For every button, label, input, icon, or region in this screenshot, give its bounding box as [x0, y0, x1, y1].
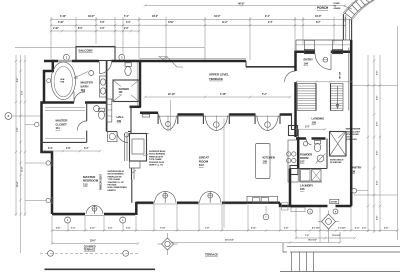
- svg-text:105: 105: [312, 120, 317, 124]
- great room ext line: [223, 118, 225, 228]
- porch column 2: [333, 40, 343, 53]
- steps edge bracket: [283, 243, 287, 252]
- svg-text:108: 108: [351, 169, 356, 173]
- svg-text:5'-2": 5'-2": [262, 93, 267, 96]
- closet shelves: [45, 107, 85, 109]
- fireplace lower step: [130, 161, 141, 168]
- svg-text:9'-6": 9'-6": [377, 96, 379, 100]
- master bedroom french door: [86, 205, 95, 214]
- detail diamond left: [162, 238, 174, 250]
- svg-text:16'-4": 16'-4": [16, 182, 19, 187]
- tub leader arrow: [74, 72, 88, 79]
- hall east wall: [139, 60, 142, 107]
- svg-text:2'-8": 2'-8": [284, 228, 288, 230]
- step line 3: [280, 271, 400, 273]
- right dimension lines: [367, 55, 369, 232]
- great room south door 1: [155, 191, 166, 203]
- fireplace body: [130, 134, 147, 162]
- terrace dimension line: [145, 96, 290, 98]
- balcony: [76, 47, 115, 61]
- svg-text:6'-10": 6'-10": [60, 15, 66, 18]
- bottom dimension second: [296, 237, 355, 239]
- french door tulip 1: [205, 116, 216, 131]
- stair right flight: [331, 84, 344, 111]
- bath south wall: [42, 101, 75, 104]
- svg-text:A: A: [8, 114, 10, 118]
- entry north wall: [296, 50, 315, 53]
- svg-text:3'-11": 3'-11": [90, 228, 95, 230]
- svg-text:8'-2": 8'-2": [316, 22, 321, 24]
- svg-text:DOOR: DOOR: [331, 202, 338, 204]
- great room south door 2: [200, 191, 211, 203]
- tub faucet: [47, 79, 51, 83]
- svg-text:3'-0": 3'-0": [126, 22, 131, 24]
- svg-text:46'-0": 46'-0": [238, 2, 245, 6]
- line of deck above: [15, 47, 205, 49]
- svg-text:7'-8": 7'-8": [205, 228, 209, 230]
- svg-text:16'-0": 16'-0": [315, 14, 322, 18]
- svg-text:21'-10": 21'-10": [168, 93, 175, 96]
- right leader line: [352, 85, 398, 87]
- french door tulip 2: [257, 116, 268, 131]
- refrigerator: [289, 126, 298, 136]
- svg-text:7'-10": 7'-10": [160, 228, 165, 230]
- porch side rails: [342, 14, 344, 40]
- great room north door tulip 1: [160, 116, 169, 131]
- door swing diamond: [322, 214, 336, 229]
- pantry shelves X box: [330, 132, 347, 157]
- top dimension line row 3: [51, 24, 345, 26]
- svg-text:6'-10": 6'-10": [58, 22, 64, 24]
- oven: [290, 166, 298, 175]
- svg-text:TERRACE: TERRACE: [205, 253, 218, 257]
- window bubble 1: [46, 161, 50, 165]
- entry door bubble: [323, 57, 328, 62]
- svg-text:5'-11": 5'-11": [251, 228, 256, 230]
- wc door arc: [77, 121, 87, 131]
- svg-text:104: 104: [304, 61, 309, 65]
- svg-text:2'-0": 2'-0": [362, 228, 366, 230]
- svg-text:2'-4": 2'-4": [126, 227, 130, 230]
- cooktop: [287, 152, 291, 156]
- whirlpool tub: [51, 62, 75, 100]
- hall balcony door leaf: [99, 62, 101, 74]
- svg-text:9'-6": 9'-6": [377, 151, 379, 155]
- svg-text:UP 16R: UP 16R: [340, 71, 342, 79]
- stair center walls: [315, 84, 317, 111]
- right mid bubble: [352, 188, 357, 193]
- bedroom door arc: [117, 132, 128, 143]
- powder east wall: [326, 139, 328, 169]
- grid bubble at balcony left: [63, 54, 69, 60]
- sink basin 1: [253, 198, 260, 203]
- svg-text:10'-6 1/2": 10'-6 1/2": [332, 235, 341, 237]
- svg-text:9'-6": 9'-6": [377, 216, 379, 220]
- svg-text:SUPERIOR BR-42: SUPERIOR BR-42: [149, 150, 166, 153]
- bath door arc: [74, 92, 85, 103]
- step line 2: [290, 251, 400, 253]
- bubbles below right wall: [308, 209, 313, 214]
- svg-text:18'-0 1/2": 18'-0 1/2": [308, 240, 317, 242]
- svg-text:VERIFY CL. HT.: VERIFY CL. HT.: [149, 165, 164, 167]
- laundry counter: [299, 169, 301, 183]
- landing dim line: [296, 128, 325, 130]
- svg-text:106: 106: [300, 187, 305, 191]
- wall below fireplace: [131, 180, 133, 203]
- step line 1: [287, 246, 400, 248]
- svg-text:FIREPLACE W/: FIREPLACE W/: [149, 155, 163, 158]
- hall north wall: [112, 60, 142, 63]
- left grid bubble A: [5, 113, 12, 120]
- terrace north wall: [140, 60, 246, 63]
- top dimension line row 2: [51, 19, 351, 21]
- svg-text:3'-4": 3'-4": [108, 227, 112, 230]
- dishwasher: [282, 203, 289, 210]
- porch curved steps far arc: [344, 0, 358, 14]
- right wall: [350, 40, 353, 206]
- powder toilet: [314, 143, 320, 151]
- svg-text:PROVIDE: PROVIDE: [108, 185, 117, 187]
- closet south wall: [42, 141, 87, 143]
- svg-text:WOOD BURNING: WOOD BURNING: [149, 154, 165, 156]
- fireplace wall upper: [130, 107, 132, 133]
- svg-text:6'-0": 6'-0": [355, 228, 359, 230]
- powder sink: [317, 155, 324, 162]
- svg-text:TERRACE: TERRACE: [209, 77, 223, 81]
- svg-text:9'-6": 9'-6": [377, 122, 379, 126]
- jamb posts: [157, 114, 159, 125]
- svg-text:TUB: TUB: [60, 82, 65, 84]
- svg-text:11'-8": 11'-8": [22, 167, 24, 172]
- svg-text:2'-8": 2'-8": [66, 148, 71, 150]
- svg-text:W/ SHELVES: W/ SHELVES: [330, 162, 342, 164]
- svg-text:3'-4": 3'-4": [48, 147, 53, 150]
- svg-text:107: 107: [300, 159, 305, 163]
- svg-text:7'-0": 7'-0": [17, 128, 19, 132]
- left small bubble: [35, 122, 39, 126]
- linen shelves: [107, 99, 112, 122]
- niche below wall: [142, 114, 150, 117]
- water closet walls: [86, 103, 88, 122]
- entry door: [315, 54, 331, 70]
- door bubble: [124, 133, 128, 137]
- deck leader flag: [159, 57, 167, 60]
- hall south-east walls: [130, 106, 141, 109]
- svg-text:NON-COMBUSTIBLE: NON-COMBUSTIBLE: [108, 187, 128, 189]
- toilet by hall north: [125, 67, 131, 76]
- terrace column circle 1: [48, 250, 54, 256]
- svg-text:25'-0": 25'-0": [90, 241, 96, 243]
- svg-text:8'-0": 8'-0": [78, 28, 83, 30]
- step risers: [291, 252, 293, 272]
- svg-text:3'-0 1/2": 3'-0 1/2": [338, 228, 346, 230]
- porch step treads: [356, 2, 361, 8]
- svg-text:34'-0": 34'-0": [88, 14, 95, 18]
- svg-text:PORCH: PORCH: [317, 6, 329, 10]
- landing door bubble: [303, 142, 307, 146]
- window bubble 2: [46, 198, 50, 202]
- top dimension line row 1: [145, 5, 345, 7]
- svg-text:5'-10": 5'-10": [220, 93, 226, 96]
- svg-text:SUPERIOR BR-42: SUPERIOR BR-42: [108, 170, 125, 173]
- svg-text:111: 111: [56, 126, 61, 130]
- svg-text:18'-0": 18'-0": [152, 15, 158, 18]
- bottom dimension main: [52, 230, 398, 232]
- terrace north jog: [245, 61, 247, 67]
- stair arrow: [337, 86, 339, 108]
- svg-text:3'-0": 3'-0": [71, 228, 75, 230]
- bath vanity: [100, 76, 107, 97]
- stair left flight: [297, 84, 316, 111]
- top dimension line row 4: [51, 30, 139, 32]
- svg-text:STACKED FLUE: STACKED FLUE: [149, 161, 165, 164]
- grid bubble at balcony right: [119, 54, 125, 60]
- svg-text:4'-0": 4'-0": [100, 27, 105, 30]
- hall south wall: [107, 131, 117, 133]
- svg-text:5'-2": 5'-2": [305, 126, 310, 128]
- svg-text:30'-6 1/2": 30'-6 1/2": [225, 240, 234, 242]
- south wall sill lines: [137, 203, 247, 205]
- laundry north wall: [290, 168, 327, 170]
- great room south wall: [136, 202, 153, 205]
- steps outside mud door: [291, 208, 305, 212]
- svg-text:34'-0": 34'-0": [214, 14, 221, 18]
- powder west wall: [297, 137, 300, 169]
- stair dimension line: [296, 81, 351, 83]
- jog wall to great room: [135, 202, 138, 215]
- south wall jog down: [280, 203, 292, 206]
- svg-text:TERRACE: TERRACE: [84, 249, 96, 252]
- porch column 1: [305, 40, 315, 53]
- svg-text:13'-8": 13'-8": [168, 22, 174, 24]
- svg-text:TYPE CHASE: TYPE CHASE: [149, 158, 162, 161]
- svg-text:5'-2": 5'-2": [22, 91, 24, 95]
- svg-text:7'-6": 7'-6": [305, 235, 309, 237]
- porch slab edge: [296, 39, 351, 41]
- kitchen island: [256, 144, 271, 179]
- svg-text:2'-8": 2'-8": [56, 228, 60, 230]
- svg-text:(2) SHELVES: (2) SHELVES: [346, 139, 358, 141]
- top extension lines: [50, 17, 52, 59]
- left dimension lines: [15, 55, 17, 216]
- svg-text:5'-8": 5'-8": [384, 228, 388, 230]
- svg-text:HEARTH: HEARTH: [108, 189, 117, 192]
- svg-text:112: 112: [83, 182, 88, 186]
- svg-text:BALCONY: BALCONY: [79, 49, 93, 53]
- grid bubble below sink: [263, 214, 269, 220]
- landing south wall: [296, 137, 306, 140]
- landing door arc: [306, 139, 312, 146]
- laundry west wall: [289, 169, 292, 207]
- svg-text:5'-8": 5'-8": [100, 22, 105, 24]
- west wall window 2: [50, 197, 52, 204]
- master bedroom south wall: [52, 213, 85, 216]
- svg-text:WOOD BURNING: WOOD BURNING: [108, 174, 124, 176]
- stair treads: [297, 85, 316, 87]
- west wall window 1: [50, 160, 52, 167]
- bath north window: [58, 59, 72, 61]
- bedroom window bubbles: [65, 217, 71, 223]
- svg-text:2'-10": 2'-10": [53, 28, 59, 30]
- kitchen east counter: [288, 140, 298, 182]
- svg-text:102: 102: [199, 163, 204, 167]
- shower: [113, 80, 139, 102]
- hall vanity: [108, 132, 118, 142]
- wc sink: [94, 106, 100, 112]
- svg-text:9'-4": 9'-4": [268, 21, 273, 24]
- svg-text:WATER HEATER: WATER HEATER: [346, 128, 361, 131]
- entry west door arc: [285, 71, 296, 82]
- great room north wall segments: [178, 113, 204, 116]
- svg-text:WINDOW SEAT: WINDOW SEAT: [100, 174, 103, 190]
- svg-text:FIREPLACE W/: FIREPLACE W/: [108, 175, 122, 178]
- kitchen sink counter: [247, 196, 278, 203]
- wc toilet: [99, 111, 105, 119]
- entry west wall: [294, 51, 297, 72]
- svg-text:9'-6": 9'-6": [17, 78, 19, 82]
- svg-text:GRADE: GRADE: [334, 7, 342, 10]
- bedroom dim line: [44, 150, 100, 152]
- svg-text:109: 109: [117, 119, 122, 123]
- terrace column circle 2: [123, 250, 129, 256]
- door label: [330, 199, 339, 203]
- svg-text:9'-6": 9'-6": [377, 181, 379, 185]
- svg-text:STACKED CL. HT.: STACKED CL. HT.: [108, 181, 125, 184]
- svg-text:5'-2": 5'-2": [84, 148, 89, 150]
- covered terrace dim: [52, 243, 138, 245]
- north wall sill lines: [158, 115, 280, 117]
- bottom left terrace edge: [45, 268, 156, 270]
- master bath north wall: [44, 60, 58, 63]
- svg-text:2'-0": 2'-0": [124, 28, 129, 30]
- svg-text:100: 100: [263, 159, 268, 163]
- svg-text:11'-2": 11'-2": [222, 22, 228, 24]
- right block south wall: [290, 205, 328, 208]
- bottom extension lines: [51, 216, 53, 244]
- master suite west wall upper: [44, 60, 53, 103]
- svg-text:5'-4": 5'-4": [124, 15, 129, 18]
- svg-text:4'-1 1/2": 4'-1 1/2": [312, 227, 320, 230]
- sink basin 2: [261, 198, 268, 203]
- svg-text:9'-4": 9'-4": [265, 15, 270, 18]
- washer dryer: [301, 170, 311, 182]
- closet bump west wall: [42, 103, 53, 215]
- great room NE corner wall: [292, 115, 299, 138]
- porch curved steps near arc: [351, 0, 373, 19]
- svg-text:9'-6": 9'-6": [377, 71, 379, 75]
- svg-text:TYPE CHASE: TYPE CHASE: [108, 178, 121, 181]
- bath bubble: [89, 71, 94, 76]
- terrace dashed line: [40, 252, 140, 254]
